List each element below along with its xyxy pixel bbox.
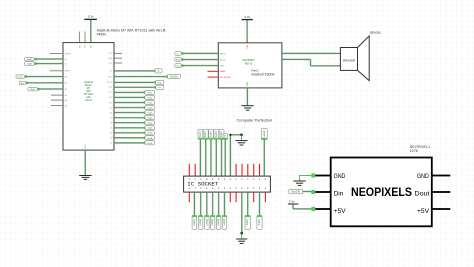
svg-text:RESET: RESET bbox=[65, 53, 72, 55]
pin stub J1 bottom 5 bbox=[264, 192, 266, 202]
pin stub J1 top 2 bbox=[194, 164, 196, 176]
svg-text:1076: 1076 bbox=[410, 149, 418, 153]
power VCC1 3.3V bbox=[84, 15, 97, 20]
junction GND4 bbox=[240, 232, 243, 235]
pin stub J1 top 9 bbox=[235, 164, 237, 176]
node BotNet3 bbox=[205, 215, 210, 229]
svg-text:AREF: AREF bbox=[65, 70, 71, 73]
node Seg4 bbox=[145, 106, 155, 110]
wire U1-Seg1 bbox=[114, 91, 144, 94]
pin labels U1 right side bbox=[107, 53, 113, 145]
svg-text:REV B: REV B bbox=[245, 62, 253, 65]
node Seg9 bbox=[145, 131, 155, 135]
junction Bclk2 bbox=[181, 58, 184, 61]
svg-text:GND: GND bbox=[247, 81, 249, 86]
node Bclk bbox=[156, 80, 164, 84]
ground GND3 above J1 bbox=[235, 141, 247, 145]
svg-text:SPKR1: SPKR1 bbox=[370, 31, 381, 35]
pin stub J1 bottom 2 bbox=[229, 192, 231, 202]
junction Seg1 bbox=[143, 91, 146, 94]
wire BotNet2-J1 bbox=[199, 192, 202, 217]
speaker SPKR1 horn bbox=[358, 36, 370, 81]
junction Lrc bbox=[154, 86, 157, 89]
pin stub J1 bottom 1 bbox=[188, 192, 190, 202]
svg-text:SwB2: SwB2 bbox=[258, 219, 261, 226]
pin stub J1 top 13 bbox=[259, 164, 261, 176]
wire Set-U1 bbox=[27, 82, 63, 85]
svg-text:Din: Din bbox=[334, 190, 344, 197]
wire J1 pin8 to GND3 bbox=[230, 135, 240, 177]
wire U1-Bclk bbox=[114, 81, 155, 84]
pin stub J1 top 11 bbox=[247, 164, 249, 176]
pin stub U1 right 3 bbox=[114, 62, 122, 64]
IC U2 MAX98357 amp bbox=[218, 43, 282, 88]
wire NeoDIN2-LED1 bbox=[303, 190, 314, 193]
pin labels U2 right bbox=[279, 53, 281, 61]
svg-text:Seg9: Seg9 bbox=[147, 133, 153, 135]
svg-text:NeoDIN: NeoDIN bbox=[291, 191, 300, 194]
svg-text:NeoDIN: NeoDIN bbox=[170, 76, 179, 78]
node TopNet4 bbox=[214, 129, 219, 139]
junction Seg7 bbox=[143, 121, 146, 124]
node Set bbox=[19, 81, 25, 85]
svg-text:Seg6: Seg6 bbox=[147, 118, 153, 120]
node TopNet6 bbox=[223, 133, 228, 139]
svg-text:Adafruit Metro M7 iMX RT1011 w: Adafruit Metro M7 iMX RT1011 with AirLif… bbox=[97, 28, 166, 32]
wire TopNet5-J1 bbox=[220, 139, 223, 176]
junction Set bbox=[25, 81, 28, 84]
svg-text:Sw1A: Sw1A bbox=[199, 131, 202, 138]
node NeoDIN bbox=[168, 74, 181, 78]
junction Seg4 bbox=[143, 106, 146, 109]
node Lrc bbox=[156, 85, 164, 89]
node Lrc2 bbox=[175, 52, 181, 56]
wire Score-U1 bbox=[26, 75, 63, 78]
junction bend bbox=[229, 134, 231, 136]
svg-text:3.3v: 3.3v bbox=[244, 15, 250, 19]
label NEOPIXEL1 1076 bbox=[410, 145, 431, 153]
svg-text:Seg2: Seg2 bbox=[147, 97, 153, 99]
wire VCC3 to LED1 +5V bbox=[293, 205, 314, 210]
svg-text:MCLK: MCLK bbox=[220, 53, 227, 55]
pin stub U1 left 5 bbox=[51, 105, 63, 107]
node BotNet2 bbox=[198, 215, 203, 229]
svg-text:Sw3A: Sw3A bbox=[210, 131, 213, 138]
svg-text:Lamp1: Lamp1 bbox=[193, 218, 196, 226]
svg-text:NEOPIXELS: NEOPIXELS bbox=[351, 185, 412, 199]
svg-text:Lamp6: Lamp6 bbox=[223, 218, 226, 226]
node BotNet7 bbox=[245, 215, 250, 229]
label U1 part name bbox=[97, 28, 166, 36]
node Bclk2 bbox=[175, 58, 181, 62]
svg-text:Sw5A: Sw5A bbox=[220, 131, 223, 138]
svg-text:Seg7: Seg7 bbox=[147, 123, 153, 125]
junction Seg8 bbox=[143, 126, 146, 129]
svg-text:Sw6: Sw6 bbox=[224, 133, 226, 138]
pin stub U1 right 2 bbox=[114, 57, 122, 59]
wire Lrc2-U2 bbox=[182, 52, 218, 55]
svg-text:GND: GND bbox=[85, 144, 87, 149]
wire U1-Seg5 bbox=[114, 111, 144, 114]
wire BotNet1-J1 bbox=[193, 192, 196, 217]
pin stub J1 top 12 bbox=[253, 164, 255, 176]
pin LED1 left 3 bbox=[312, 208, 331, 210]
wire GND5 to LED1 bbox=[300, 175, 314, 180]
svg-text:SegA: SegA bbox=[147, 137, 153, 140]
junction Seg5 bbox=[143, 111, 146, 114]
junction Lrc2 bbox=[181, 52, 184, 55]
svg-text:SD_MODE: SD_MODE bbox=[220, 77, 231, 79]
wire U1-SegA bbox=[114, 137, 144, 140]
wire U1-GND bbox=[84, 150, 87, 175]
svg-text:GAIN: GAIN bbox=[220, 70, 226, 73]
wire J1 to GND4 bbox=[241, 192, 244, 233]
svg-text:NEO: NEO bbox=[108, 76, 113, 78]
pin stub J1 bottom 3 bbox=[235, 192, 237, 202]
svg-text:SwB2: SwB2 bbox=[27, 64, 33, 66]
wire BotNet4-J1 bbox=[211, 192, 214, 217]
wire Bclk2-U2 bbox=[182, 58, 218, 61]
junction GND3 bbox=[240, 133, 243, 136]
pin stub U1 right 1 bbox=[114, 52, 122, 54]
junction LED1 +5V bbox=[311, 207, 315, 211]
junction LED1 Din bbox=[311, 190, 315, 194]
node Din2 bbox=[175, 64, 181, 68]
svg-text:1: 1 bbox=[342, 53, 343, 55]
pin stub U2 SD bbox=[208, 76, 219, 78]
pin stub J1 top 1 bbox=[188, 164, 190, 176]
IC U1 Adafruit Metro M7 bbox=[63, 43, 114, 151]
svg-text:SwB1: SwB1 bbox=[246, 219, 249, 226]
node Seg1 bbox=[145, 90, 155, 94]
wire VCC2 to U2 bbox=[246, 20, 249, 43]
wire U1-Seg3 bbox=[114, 101, 144, 104]
node BotNet1 bbox=[192, 215, 197, 229]
wire TopNet1-J1 bbox=[199, 139, 202, 176]
node NeoDIN2 bbox=[289, 189, 303, 194]
node SegA bbox=[145, 136, 155, 140]
svg-text:+5V: +5V bbox=[334, 208, 347, 215]
power VCC2 3.3V bbox=[242, 15, 253, 20]
svg-text:#4950: #4950 bbox=[97, 32, 107, 36]
svg-text:LRC: LRC bbox=[108, 87, 113, 89]
junction Seg3 bbox=[143, 101, 146, 104]
junction Score bbox=[24, 75, 27, 78]
wire TopNet4-J1 bbox=[215, 139, 218, 176]
node Seg8 bbox=[145, 126, 155, 130]
label U2 center text bbox=[242, 59, 255, 65]
wire BotNet3-J1 bbox=[206, 192, 209, 217]
pin labels U1 left side bbox=[65, 53, 72, 107]
pin stub U1 left 4 bbox=[51, 99, 63, 101]
pin LED1 right 1 bbox=[432, 175, 451, 177]
svg-text:SegB: SegB bbox=[147, 143, 153, 145]
pin numbers J1 bbox=[189, 178, 266, 189]
pin LED1 right 2 bbox=[432, 191, 451, 193]
wire U1-Seg9 bbox=[114, 132, 144, 135]
wire SwB2-U1 bbox=[36, 62, 63, 65]
svg-text:AirLift: AirLift bbox=[85, 98, 92, 102]
junction Din2 bbox=[181, 64, 184, 67]
junction NeoDIN bbox=[166, 75, 169, 78]
pin stub J1 top 10 bbox=[241, 164, 243, 176]
junction SegB bbox=[143, 142, 146, 145]
svg-text:Sw4A: Sw4A bbox=[215, 131, 218, 138]
svg-text:GND: GND bbox=[417, 173, 429, 180]
svg-text:SwB1: SwB1 bbox=[27, 59, 33, 61]
svg-text:3.3v: 3.3v bbox=[289, 200, 295, 204]
node 5v bbox=[155, 69, 162, 73]
junction Seg2 bbox=[143, 96, 146, 99]
junction SwB1 bbox=[34, 58, 37, 61]
wire U2- to SPKR1 bbox=[282, 59, 341, 66]
wire BotNet7-J1 bbox=[246, 192, 249, 217]
svg-text:Seg5: Seg5 bbox=[147, 113, 153, 115]
junction Seg9 bbox=[143, 131, 146, 134]
pin stub U1 left 3 bbox=[51, 94, 63, 96]
wire TopNet3-J1 bbox=[210, 139, 213, 176]
junction 5v bbox=[153, 70, 156, 73]
wire Din2-U2 bbox=[182, 64, 218, 67]
wire U1-Seg7 bbox=[114, 121, 144, 124]
svg-text:DIN: DIN bbox=[220, 66, 224, 68]
svg-text:VIN: VIN bbox=[247, 45, 249, 49]
pin stub U1 left 1 bbox=[50, 53, 63, 55]
node BotNet6 bbox=[222, 215, 227, 229]
node TopNet1 bbox=[198, 129, 203, 139]
IC socket J1 bbox=[184, 176, 271, 192]
node TopNet3 bbox=[209, 129, 214, 139]
svg-text:Seg1: Seg1 bbox=[147, 92, 153, 94]
node BotNet4 bbox=[210, 215, 215, 229]
wire U1-5v bbox=[114, 70, 155, 73]
junction SegA bbox=[143, 136, 146, 139]
ground GND2 below U2 bbox=[242, 106, 254, 111]
svg-text:Set: Set bbox=[21, 82, 25, 85]
pin LED1 right 3 bbox=[432, 208, 451, 210]
pin labels U2 left bbox=[220, 53, 231, 79]
node SwB2 bbox=[25, 62, 35, 66]
pin stub J1 bottom 4 bbox=[253, 192, 255, 202]
node Seg2 bbox=[145, 95, 155, 99]
wire BotNet8-J1 bbox=[258, 192, 261, 217]
node TopNet2 bbox=[203, 129, 208, 139]
svg-text:Dout: Dout bbox=[415, 190, 430, 197]
svg-text:BCLK: BCLK bbox=[107, 82, 113, 84]
svg-text:Lamp3: Lamp3 bbox=[205, 218, 208, 226]
svg-text:Seg3: Seg3 bbox=[147, 102, 153, 104]
svg-text:Seg8: Seg8 bbox=[147, 128, 153, 130]
wire U1-SegB bbox=[114, 142, 144, 145]
svg-text:Lamp2: Lamp2 bbox=[199, 218, 202, 226]
node BotNet5 bbox=[216, 215, 221, 229]
wire U1-Lrc bbox=[114, 86, 155, 89]
svg-text:SPEAKER: SPEAKER bbox=[343, 60, 356, 63]
node Seg5 bbox=[145, 111, 155, 115]
wire GND4 stem bbox=[241, 233, 243, 239]
wire TopNet7-J1 bbox=[263, 140, 266, 177]
wire SwB1-U1 bbox=[36, 58, 63, 61]
wire U1-NeoDIN bbox=[114, 75, 167, 78]
pin stub U1 left 2 bbox=[50, 70, 63, 72]
ground GND4 below J1 bbox=[236, 239, 247, 243]
svg-text:IC SOCKET: IC SOCKET bbox=[187, 182, 218, 188]
junction Seg6 bbox=[143, 116, 146, 119]
node TopNet5 bbox=[219, 129, 224, 139]
wire U1-Seg8 bbox=[114, 126, 144, 129]
svg-text:3.3v: 3.3v bbox=[88, 15, 94, 19]
svg-text:Sw2A: Sw2A bbox=[204, 131, 207, 138]
junction Bclk bbox=[154, 81, 157, 84]
node SegB bbox=[145, 141, 155, 145]
svg-text:Computer Perfection: Computer Perfection bbox=[237, 118, 273, 123]
pin stub U2 GAIN bbox=[208, 70, 219, 72]
pin LED1 left 2 bbox=[312, 191, 331, 193]
label U2 part bbox=[251, 68, 274, 76]
junction LED1 GND bbox=[311, 173, 315, 177]
svg-text:Score: Score bbox=[17, 76, 23, 79]
junction SwB2 bbox=[34, 62, 37, 65]
svg-text:GND: GND bbox=[334, 173, 346, 180]
svg-text:BCLK: BCLK bbox=[220, 59, 226, 61]
pin stub U1 top2 bbox=[84, 32, 86, 43]
wire VCC1 to U1 bbox=[90, 20, 93, 43]
junction Mute bbox=[37, 88, 40, 91]
node TopNet7 bbox=[261, 129, 267, 140]
power VCC3 3.3V bbox=[288, 200, 299, 204]
svg-text:Seg4: Seg4 bbox=[147, 108, 153, 110]
wire GND3 stem bbox=[241, 135, 243, 141]
svg-text:SDA: SDA bbox=[108, 57, 113, 60]
node BotNet8 bbox=[257, 215, 262, 229]
wire BotNet6-J1 bbox=[223, 192, 226, 217]
pin stub U1 top1 bbox=[79, 32, 81, 43]
ground GND5 at LED1 bbox=[293, 181, 305, 185]
node Score bbox=[16, 75, 25, 79]
wire U1-Seg4 bbox=[114, 106, 144, 109]
speaker SPKR1 body bbox=[340, 48, 357, 71]
wire BotNet5-J1 bbox=[217, 192, 220, 217]
node Seg3 bbox=[145, 101, 155, 105]
label U1 center text bbox=[84, 80, 94, 102]
node Seg7 bbox=[145, 121, 155, 125]
wire TopNet6-J1 bbox=[224, 140, 227, 177]
node SwB1 bbox=[25, 57, 35, 61]
svg-text:Lamp5: Lamp5 bbox=[217, 218, 220, 226]
pin labels LED1 bbox=[334, 173, 430, 215]
wire U2-GND bbox=[246, 88, 249, 106]
svg-text:Adafruit #3006: Adafruit #3006 bbox=[251, 72, 274, 76]
ground GND1 below U1 bbox=[79, 176, 91, 180]
svg-text:+5V: +5V bbox=[417, 208, 430, 215]
node Mute bbox=[28, 88, 37, 92]
IC LED1 NEOPIXELS bbox=[331, 158, 432, 227]
svg-text:Lamp4: Lamp4 bbox=[211, 218, 214, 226]
pin marks SPKR1 bbox=[342, 53, 343, 67]
svg-text:2: 2 bbox=[342, 66, 343, 68]
node Seg6 bbox=[145, 116, 155, 120]
wire TopNet2-J1 bbox=[204, 139, 207, 176]
svg-text:Mute: Mute bbox=[30, 88, 36, 91]
svg-text:Lamp0: Lamp0 bbox=[263, 130, 266, 138]
wire U2+ to SPKR1 bbox=[282, 52, 341, 55]
wire U1-Seg6 bbox=[114, 116, 144, 119]
pin LED1 left 1 bbox=[312, 175, 331, 177]
wire Mute-U1 bbox=[39, 88, 64, 91]
wire U1-Seg2 bbox=[114, 96, 144, 99]
